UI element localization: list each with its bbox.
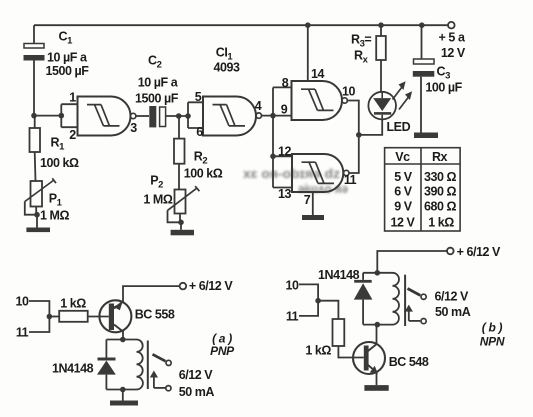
node junction at gate1 bracket (59, 113, 65, 119)
wire Q2 emitter to ground (376, 373, 378, 385)
node junction LED return (356, 132, 362, 138)
wire R5 to base Q2 (338, 346, 363, 358)
svg-text:9 V: 9 V (394, 199, 413, 213)
relay K2 common terminal (b) (421, 319, 426, 324)
ground Q2 (b) (364, 385, 388, 391)
wire pin14 from rail to gate3 (307, 25, 309, 81)
svg-text:C1: C1 (59, 30, 74, 47)
wire relay top (a) (106, 339, 136, 341)
svg-text:3: 3 (130, 121, 137, 135)
svg-text:1 kΩ: 1 kΩ (428, 215, 454, 229)
svg-text:R2: R2 (194, 150, 208, 167)
potentiometer P2 (168, 186, 200, 222)
wire gate1 input bracket pins 1-2 (61, 104, 77, 127)
wire gate1 output to C2 (136, 115, 149, 117)
op-amp gate U1c NAND 4093 (292, 81, 343, 120)
wire top supply rail (34, 24, 448, 26)
ground pin7 (302, 215, 324, 220)
wire terminal 10 (a) (29, 301, 49, 317)
wire R4 to base Q1 (88, 316, 109, 318)
wire relay bottom (b) (363, 324, 392, 326)
wire P2 to ground (180, 222, 182, 230)
wire relay bottom (a) (106, 389, 136, 391)
svg-text:6 V: 6 V (394, 184, 413, 198)
relay K2 actuation arrow (b) (405, 305, 421, 321)
svg-text:11: 11 (286, 309, 299, 323)
wire pin12 (273, 155, 292, 157)
resistor R3 (376, 25, 386, 92)
terminal +6/12V (a) (180, 283, 187, 290)
node junction pin14 on rail (305, 22, 311, 28)
svg-text:Rx: Rx (432, 150, 448, 164)
gate1 output bubble pin3 (131, 113, 136, 118)
svg-text:1500 µF: 1500 µF (46, 64, 90, 78)
ground C3 (414, 133, 438, 139)
svg-text:390 Ω: 390 Ω (424, 184, 457, 198)
capacitor C3 (413, 25, 435, 132)
capacitor C2 (149, 106, 165, 127)
node junction P1 bottom (34, 212, 40, 218)
svg-text:5: 5 (195, 90, 202, 104)
relay K1 actuation arrow (a) (150, 371, 166, 388)
svg-text:13: 13 (278, 187, 292, 201)
svg-text:PNP: PNP (210, 344, 235, 358)
svg-text:12 V: 12 V (391, 215, 416, 229)
LED D1 (368, 92, 396, 120)
svg-text:P2: P2 (150, 174, 163, 191)
svg-text:1: 1 (69, 91, 76, 105)
svg-text:12 V: 12 V (441, 46, 466, 60)
node junction C3 on rail (419, 22, 425, 28)
wire relay top (b) (363, 272, 392, 274)
svg-text:100 kΩ: 100 kΩ (184, 167, 223, 181)
wire node to R4 (49, 316, 59, 318)
wire node to R5 (318, 301, 338, 319)
svg-text:1 kΩ: 1 kΩ (60, 297, 86, 311)
svg-text:9: 9 (281, 103, 288, 117)
faint print-through ghost marks (background) (243, 166, 348, 196)
transistor Q1 BC558 PNP (99, 300, 131, 332)
transistor Q2 BC548 NPN (353, 342, 385, 374)
wire C2 to gate2 bracket (166, 115, 188, 117)
svg-text:11: 11 (16, 326, 29, 340)
svg-text:5 V: 5 V (394, 170, 413, 184)
svg-text:+ 6/12 V: + 6/12 V (457, 245, 501, 259)
svg-text:1 kΩ: 1 kΩ (305, 343, 331, 357)
node junction relay top (b) (375, 270, 381, 276)
svg-text:1500 µF: 1500 µF (135, 92, 179, 106)
svg-text:14: 14 (311, 67, 325, 81)
op-amp gate U1b NAND 4093 (203, 97, 256, 136)
wire LED bottom to node (359, 119, 382, 134)
diode D3 1N4148 (b) (354, 273, 373, 325)
gate2 output bubble pin4 (256, 113, 261, 118)
svg-text:12: 12 (278, 145, 292, 159)
svg-text:11: 11 (344, 173, 357, 187)
svg-text:P1: P1 (49, 192, 63, 209)
svg-text:50 mA: 50 mA (179, 385, 215, 399)
relay K1 coil (a) (137, 340, 143, 390)
node junction relay bottom (b) (375, 322, 381, 328)
svg-text:6/12 V: 6/12 V (435, 289, 470, 303)
svg-text:( a ): ( a ) (212, 331, 232, 345)
svg-text:BC 548: BC 548 (389, 355, 429, 369)
svg-text:10: 10 (342, 85, 356, 99)
relay K2 core (b) (404, 275, 406, 326)
svg-text:10 µF a: 10 µF a (47, 51, 88, 65)
table Vc/Rx (385, 148, 461, 231)
ground relay (a) (110, 401, 138, 406)
diode D2 1N4148 (a) (97, 340, 116, 390)
svg-text:10: 10 (285, 278, 299, 292)
wire input rail vertical 8-9-12-13 (272, 87, 274, 187)
svg-text:6/12 V: 6/12 V (179, 368, 214, 382)
wire terminal 10 (b) (299, 284, 318, 300)
svg-text:( b ): ( b ) (482, 321, 503, 335)
resistor R5 1k (b) (333, 319, 345, 346)
node junction relay bottom (a) (120, 387, 126, 393)
wire Q1 collector to relay (122, 331, 124, 340)
svg-text:680 Ω: 680 Ω (424, 199, 457, 213)
node junction input rail (270, 113, 276, 119)
svg-text:1 MΩ: 1 MΩ (40, 209, 69, 223)
wire terminal 11 (b) (299, 301, 318, 316)
terminal +6/12V (b) (447, 248, 454, 255)
svg-text:100 kΩ: 100 kΩ (40, 156, 79, 170)
svg-text:C2: C2 (148, 54, 162, 71)
ground P1 (26, 228, 50, 233)
svg-text:10 µF a: 10 µF a (138, 76, 179, 90)
node junction P2 bottom (178, 220, 184, 226)
relay K1 contact arm (a) (153, 354, 166, 361)
LED light arrows (393, 81, 413, 109)
relay K2 contact arm (b) (408, 289, 421, 296)
node junction relay top (a) (120, 337, 126, 343)
gate4 output bubble pin11 (344, 170, 349, 175)
node junction pin12 (270, 154, 276, 160)
op-amp gate U1d NAND 4093 (292, 154, 343, 192)
svg-text:1N4148: 1N4148 (52, 362, 94, 376)
op-amp gate U1a NAND 4093 (78, 97, 131, 136)
svg-text:R3=: R3= (351, 33, 371, 50)
svg-text:1N4148: 1N4148 (318, 268, 360, 282)
wire pin7 to ground (312, 192, 314, 215)
svg-text:1 MΩ: 1 MΩ (143, 193, 172, 207)
svg-text:LED: LED (387, 120, 411, 134)
relay K2 NO contact terminal (b) (421, 294, 426, 299)
wire relay to ground (a) (122, 390, 124, 401)
wire terminal 11 (a) (29, 317, 49, 333)
svg-text:10: 10 (15, 295, 29, 309)
relay K1 NO contact terminal (a) (166, 360, 171, 365)
svg-text:4: 4 (255, 99, 262, 113)
wire C1 bottom lead to node (33, 61, 35, 116)
wire node A to gate1 input bracket (34, 115, 61, 117)
svg-text:330 Ω: 330 Ω (424, 170, 457, 184)
resistor R4 1k (a) (59, 311, 87, 322)
capacitor C1 (24, 44, 45, 61)
svg-text:+ 5 a: + 5 a (439, 31, 466, 45)
wire C1 top lead (33, 25, 35, 43)
wire relay top to +V (b) (377, 251, 447, 273)
svg-text:NPN: NPN (480, 334, 505, 348)
svg-text:2: 2 (69, 128, 76, 142)
node junction R3 on rail (378, 22, 384, 28)
svg-text:6: 6 (196, 125, 203, 139)
svg-text:4093: 4093 (214, 61, 241, 75)
svg-text:+ 6/12 V: + 6/12 V (189, 279, 233, 293)
potentiometer P1 (25, 178, 56, 215)
svg-text:R1: R1 (51, 136, 66, 153)
node junction gate2 bracket (185, 113, 191, 119)
gate3 output bubble pin10 (342, 98, 347, 103)
svg-text:100 µF: 100 µF (425, 81, 462, 95)
svg-text:50 mA: 50 mA (435, 305, 471, 319)
node junction 10/11 (a) (47, 314, 53, 320)
resistor R2 (174, 116, 185, 190)
svg-text:BC 558: BC 558 (135, 308, 175, 322)
wire gate3 output down to LED node (347, 101, 358, 135)
resistor R1 (30, 116, 41, 181)
node A junction C1/R1/gate1 (31, 113, 37, 119)
svg-text:7: 7 (304, 193, 311, 207)
svg-text:C3: C3 (437, 65, 451, 82)
node junction R2 tap (176, 113, 182, 119)
wire gate2 output to gate3 pin9 (262, 115, 292, 117)
wire pin13 (273, 187, 292, 189)
svg-text:Rx: Rx (354, 49, 369, 66)
wire pin8 (273, 86, 292, 88)
ground P2 (171, 230, 194, 236)
terminal +5a/12V (448, 22, 455, 29)
node junction 10/11 (b) (315, 298, 321, 304)
wire P1 to ground (36, 215, 38, 228)
wire Q2 collector to relay (376, 325, 378, 345)
relay K2 coil (b) (393, 273, 400, 325)
relay K1 common terminal (a) (166, 386, 171, 391)
relay K1 core (a) (147, 341, 149, 390)
svg-text:Vc: Vc (395, 150, 410, 164)
svg-text:8: 8 (282, 76, 289, 90)
wire Q1 emitter to +V terminal (123, 286, 180, 302)
wire gate2 input bracket pins 5-6 (188, 102, 203, 128)
wire gate4 output up to LED node (349, 135, 359, 173)
